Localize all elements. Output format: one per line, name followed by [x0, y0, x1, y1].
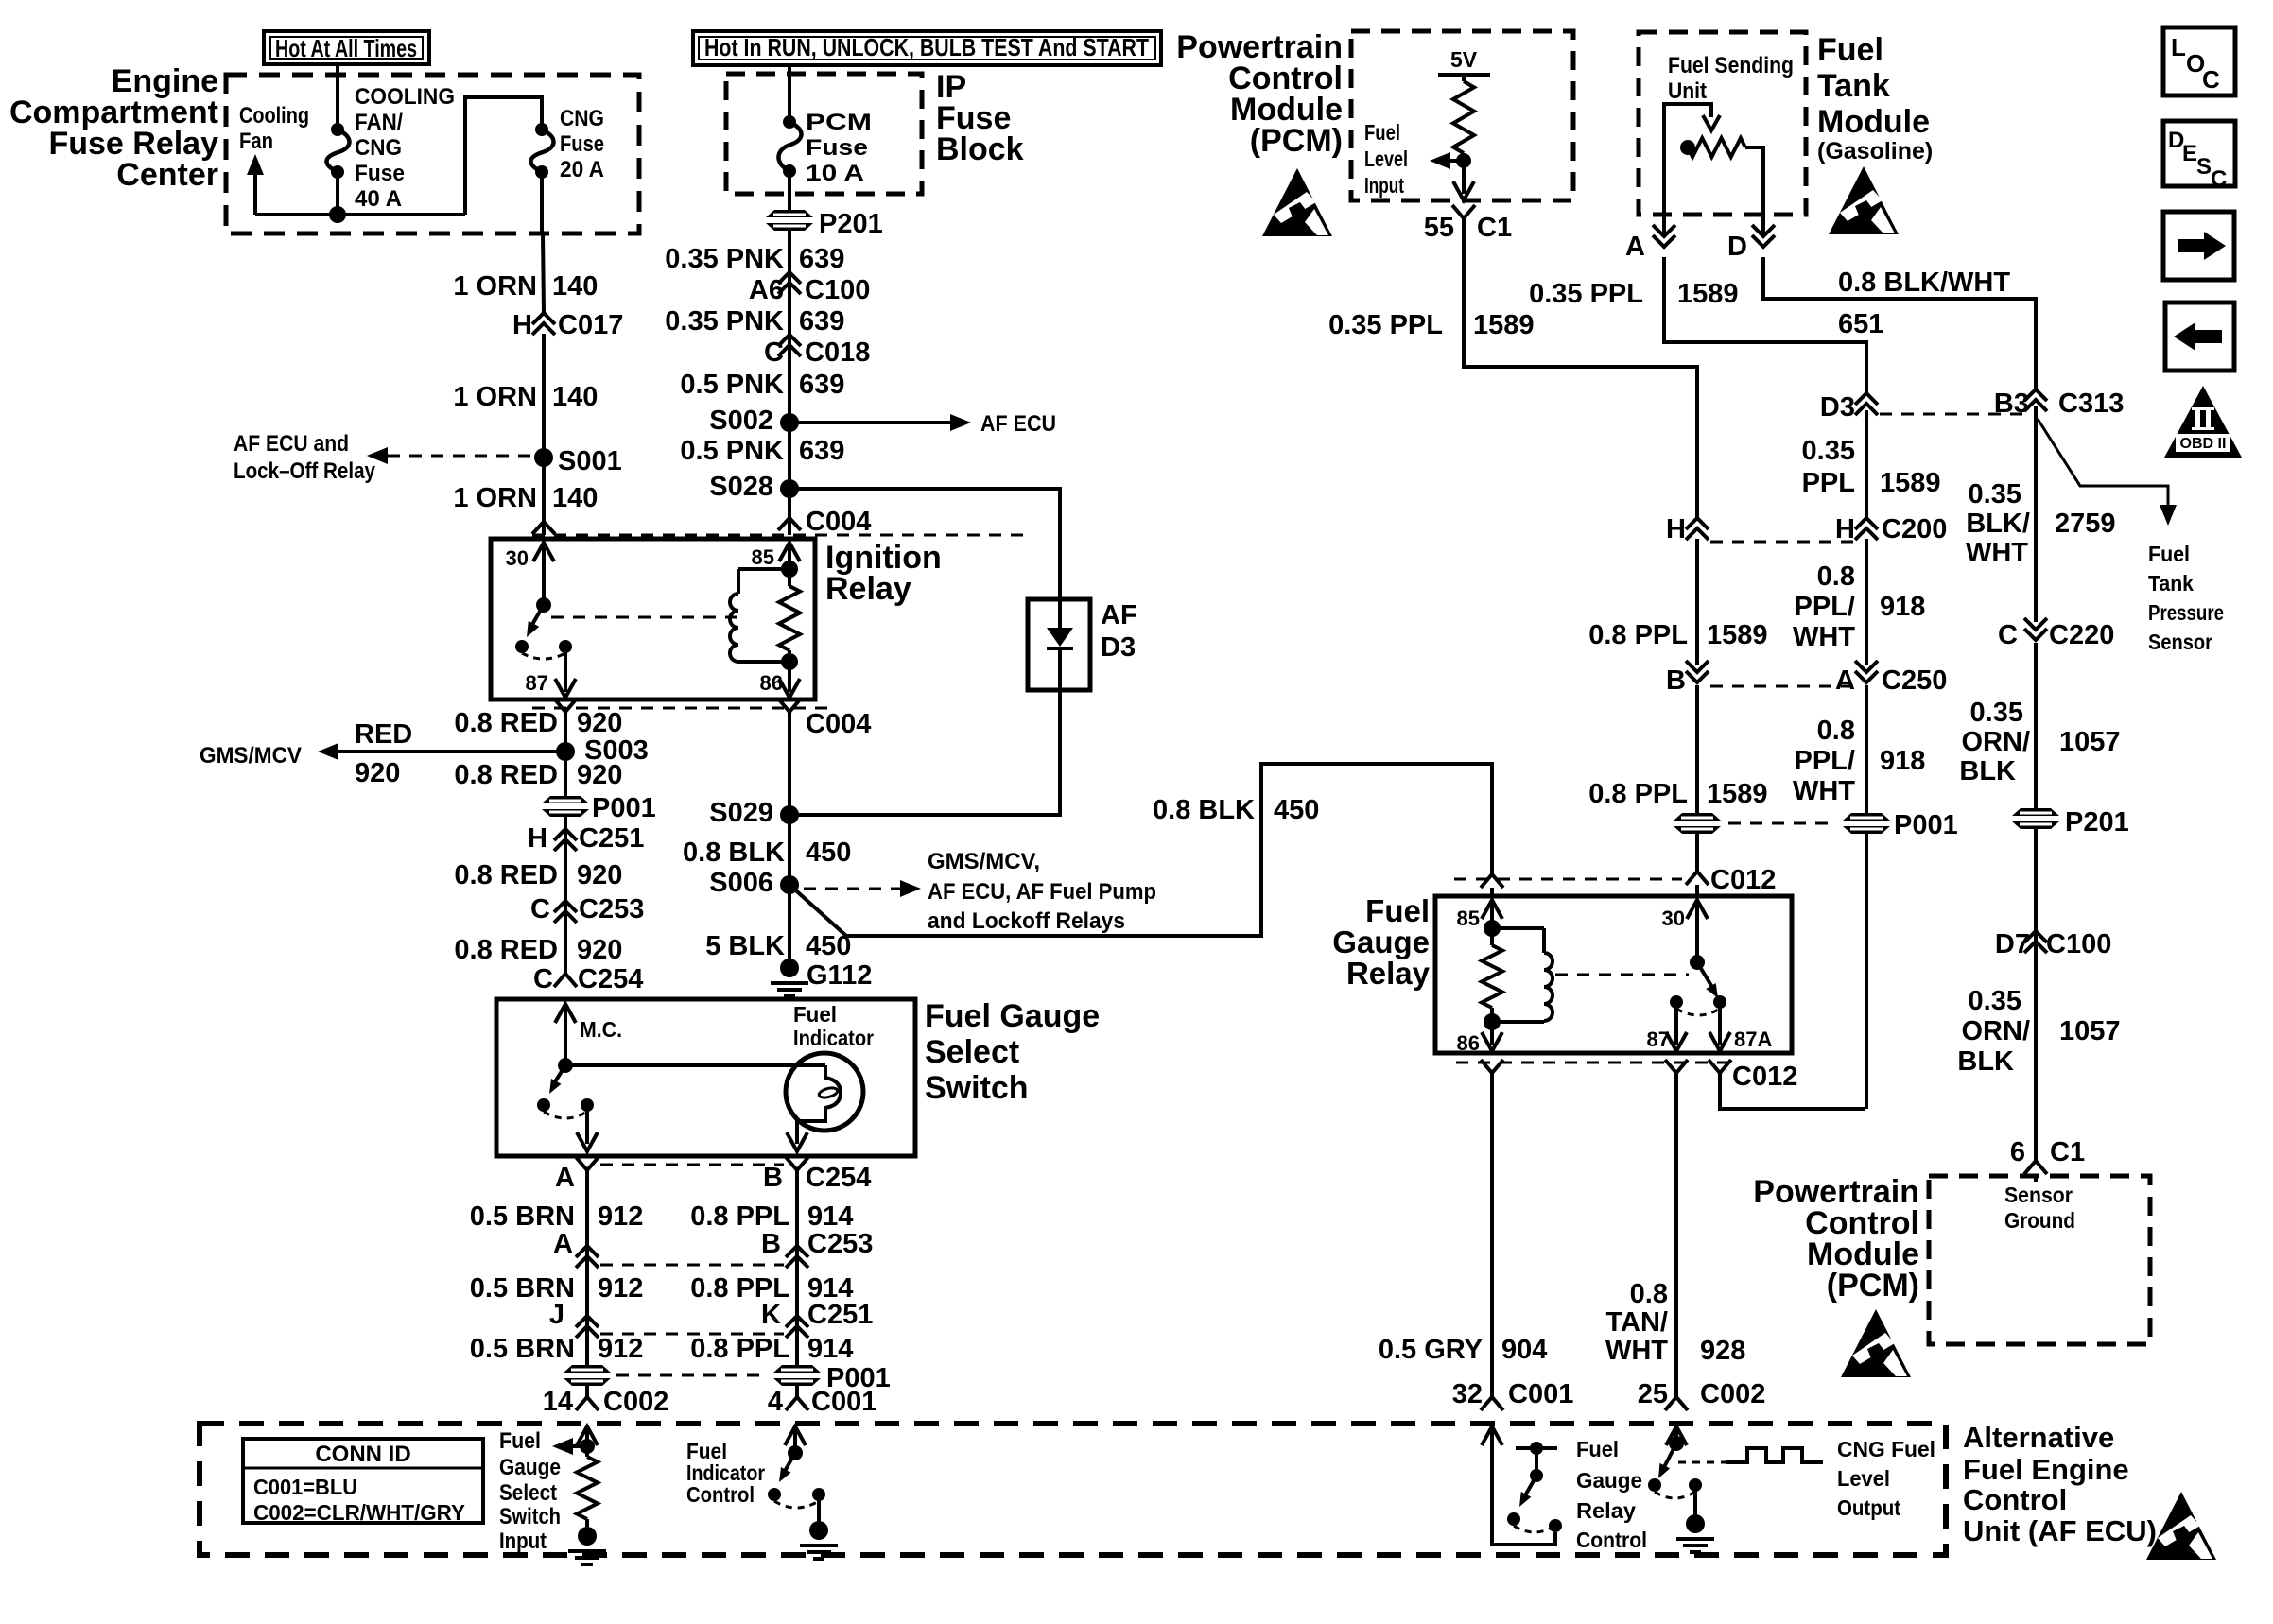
fuel gauge relay control pin arrow — [1482, 1426, 1502, 1445]
svg-text:Sensor: Sensor — [2004, 1183, 2073, 1207]
connector P201 on PNK wire — [766, 210, 813, 231]
branch: C313 to fuel tank pressure sensor — [2038, 419, 2168, 505]
ignition relay switch contacts — [515, 640, 529, 653]
svg-text:Relay: Relay — [825, 571, 911, 607]
fuel level input arrow — [1456, 153, 1471, 168]
svg-text:0.35: 0.35 — [1969, 479, 2021, 510]
svg-text:PPL/: PPL/ — [1795, 746, 1855, 776]
svg-text:1589: 1589 — [1880, 468, 1941, 498]
fork 32 C001 — [1481, 1397, 1503, 1410]
fuse: PCM Fuse 10 A — [783, 115, 796, 129]
svg-text:H: H — [512, 310, 532, 340]
connector C251 chevrons right (K) — [786, 1316, 808, 1327]
fuse: CNG Fuse 20 A — [535, 123, 548, 136]
svg-text:920: 920 — [577, 760, 622, 790]
svg-text:L: L — [2171, 33, 2186, 61]
CNG fuel level output switch — [1669, 1436, 1684, 1451]
wire: 0.35 ORN/BLK 1057 C220 to P201 — [2034, 643, 2038, 808]
wire: 0.8 PPL 914 C253 to C251 — [795, 1267, 799, 1337]
svg-text:912: 912 — [598, 1334, 643, 1364]
svg-text:30: 30 — [506, 546, 529, 570]
svg-text:C017: C017 — [558, 310, 623, 340]
connector C253 dashed line — [600, 1264, 784, 1267]
M.C. switch arm — [554, 1065, 565, 1083]
fork above fuel gauge relay 30 (C012) — [1686, 872, 1709, 885]
wire: C018 to S002 — [788, 355, 791, 423]
connector P001 on PCM-side PPL wire — [1674, 813, 1721, 834]
svg-text:P201: P201 — [2065, 807, 2129, 838]
fuel gauge relay pin 87A arrow — [1718, 1002, 1722, 1045]
splice S028 — [780, 479, 799, 498]
wire: P001 to C012 (left) — [1695, 834, 1699, 872]
connector C250 chevrons left (B) — [1686, 671, 1709, 682]
svg-text:0.8 BLK: 0.8 BLK — [683, 838, 785, 868]
junction block banner: Hot In RUN, UNLOCK, BULB TEST And START — [693, 31, 1161, 65]
svg-text:2759: 2759 — [2055, 509, 2116, 539]
M.C. switch common arrow — [555, 1004, 576, 1023]
svg-text:C: C — [2211, 166, 2227, 192]
wire: lamp to pin B — [795, 1121, 799, 1144]
svg-text:Fuse: Fuse — [806, 135, 868, 161]
svg-text:C1: C1 — [1477, 213, 1512, 243]
IP Fuse Block dashed box — [726, 74, 922, 194]
wire: P001 to 87A riser (right) — [1865, 834, 1868, 1109]
svg-text:639: 639 — [799, 370, 844, 400]
svg-text:912: 912 — [598, 1273, 643, 1304]
svg-text:AF ECU and: AF ECU and — [234, 431, 349, 457]
svg-text:C001: C001 — [811, 1387, 876, 1417]
svg-text:651: 651 — [1838, 309, 1883, 339]
Alternative Fuel Engine Control Unit dashed box — [200, 1424, 1946, 1555]
M.C. switch pivot — [558, 1058, 573, 1073]
svg-text:0.35: 0.35 — [1969, 986, 2021, 1016]
svg-text:87: 87 — [1647, 1028, 1670, 1051]
svg-text:J: J — [549, 1300, 564, 1330]
svg-text:H: H — [1835, 514, 1855, 544]
svg-text:BLK: BLK — [1957, 1046, 2014, 1077]
svg-text:0.8 RED: 0.8 RED — [454, 760, 558, 790]
svg-text:AF: AF — [1101, 600, 1137, 631]
svg-text:Fuse: Fuse — [560, 131, 604, 157]
svg-text:C1: C1 — [2050, 1137, 2085, 1167]
ignition relay mechanical link dashed — [551, 616, 737, 619]
svg-text:Fuel: Fuel — [1365, 893, 1430, 928]
wire: 0.35 PPL 1589 from 55 C1 to riser — [1464, 218, 1697, 518]
svg-text:5V: 5V — [1450, 47, 1478, 72]
wire: S028 to C004 chevron — [788, 489, 791, 535]
fork under fuel gauge relay 87A — [1709, 1060, 1731, 1073]
connector C313 chevrons B3 — [2024, 389, 2047, 401]
Engine Compartment Fuse Relay Center dashed box — [226, 75, 639, 233]
svg-text:0.5 BRN: 0.5 BRN — [470, 1334, 575, 1364]
svg-text:Level: Level — [1837, 1466, 1890, 1491]
svg-text:0.8 RED: 0.8 RED — [454, 708, 558, 738]
svg-text:Fuel: Fuel — [793, 1002, 837, 1027]
svg-text:Relay: Relay — [1346, 956, 1431, 991]
svg-text:0.8: 0.8 — [1817, 561, 1855, 592]
svg-text:85: 85 — [1457, 907, 1480, 930]
fuse: COOLING FAN/CNG Fuse 40 A — [331, 123, 344, 136]
splice S029 — [780, 805, 799, 824]
fork D under fuel sending unit — [1752, 235, 1775, 247]
svg-text:1589: 1589 — [1707, 620, 1768, 650]
wire: 0.5 BRN 912 C251 to P001 — [585, 1337, 589, 1365]
connector C004 chevron (pin for ignition relay 30) — [532, 522, 555, 534]
icon: DESC box — [2163, 121, 2235, 186]
connector C100 chevrons (D7) — [2024, 931, 2047, 942]
svg-text:639: 639 — [799, 306, 844, 337]
wire: 0.5 BRN 912 C254 to C253 — [585, 1170, 589, 1267]
wire: Hot At All Times feed down to 40A fuse — [336, 64, 339, 130]
fuel gauge relay resistor — [1490, 928, 1494, 945]
wire: 0.8 PPL 914 C251 to P001 — [795, 1337, 799, 1365]
svg-text:PCM: PCM — [806, 110, 872, 135]
connector C251 chevrons left (J) — [576, 1316, 599, 1327]
fork 55 C1 — [1452, 205, 1475, 218]
svg-text:Fuel: Fuel — [1817, 32, 1883, 68]
svg-text:0.8 PPL: 0.8 PPL — [1588, 620, 1688, 650]
svg-text:C004: C004 — [806, 507, 871, 537]
svg-text:1589: 1589 — [1677, 279, 1739, 309]
ignition relay box — [491, 539, 815, 700]
svg-text:C250: C250 — [1882, 665, 1947, 696]
wire: 0.8 BLK 450 from S006 to fuel gauge relay 85 — [789, 764, 1492, 936]
svg-text:OBD II: OBD II — [2180, 436, 2227, 452]
fuel gauge relay pin 87 arrow — [1674, 1002, 1678, 1045]
svg-text:RED: RED — [355, 719, 412, 750]
svg-text:1 ORN: 1 ORN — [453, 382, 537, 412]
connector C253 chevrons — [554, 901, 577, 912]
svg-text:20 A: 20 A — [560, 157, 604, 182]
connector P001 dashed line and label — [616, 1374, 768, 1377]
connector P001 on BRN wire — [564, 1365, 611, 1386]
svg-text:0.5 PNK: 0.5 PNK — [680, 370, 784, 400]
svg-text:C002: C002 — [1700, 1379, 1765, 1409]
arrow to Cooling Fan — [253, 170, 257, 215]
fork A under fuel sending unit — [1653, 235, 1675, 247]
svg-text:Gauge: Gauge — [1332, 924, 1430, 959]
svg-text:C200: C200 — [1882, 514, 1947, 544]
svg-text:COOLING: COOLING — [355, 84, 455, 110]
svg-text:Switch: Switch — [499, 1504, 561, 1529]
svg-text:Select: Select — [499, 1480, 557, 1506]
svg-text:C: C — [764, 337, 784, 368]
svg-text:Center: Center — [116, 157, 218, 193]
wire: 0.35 PPL 1589 D3 to C200 — [1865, 410, 1868, 518]
svg-text:0.5 GRY: 0.5 GRY — [1379, 1335, 1483, 1365]
svg-text:WHT: WHT — [1793, 622, 1855, 652]
svg-text:C012: C012 — [1710, 865, 1776, 895]
connector C254 dashed line — [600, 1164, 784, 1166]
svg-text:C001=BLU: C001=BLU — [253, 1475, 357, 1499]
connector C254 fork at switch box — [554, 974, 577, 987]
fuel gauge relay mechanical link dashed — [1555, 974, 1689, 976]
connector P201 on ORN/BLK wire — [2012, 808, 2059, 829]
icon: LOC box — [2163, 27, 2235, 95]
splice S006 — [780, 875, 799, 894]
svg-text:S006: S006 — [709, 868, 773, 898]
wire: 1 ORN 140 C017 to S001 — [542, 334, 546, 458]
svg-text:B: B — [761, 1229, 781, 1259]
fork 6 C1 — [2024, 1161, 2047, 1174]
connector P001 on sender-side PPL wire — [1843, 813, 1890, 834]
svg-text:WHT: WHT — [1605, 1336, 1668, 1366]
icon: back arrow box — [2165, 302, 2234, 371]
svg-text:C: C — [533, 964, 553, 994]
wire: RED P001 to C251 — [564, 817, 567, 857]
svg-text:Fuel: Fuel — [1364, 120, 1400, 145]
wire: S002 to S028 — [788, 423, 791, 489]
svg-text:H: H — [1666, 514, 1686, 544]
svg-text:0.8 PPL: 0.8 PPL — [690, 1201, 789, 1232]
svg-text:Relay: Relay — [1576, 1498, 1636, 1523]
fuel sending unit resistor — [1688, 138, 1745, 157]
wire: switch common to fuel indicator lamp — [565, 1063, 825, 1067]
svg-text:0.35 PPL: 0.35 PPL — [1328, 310, 1443, 340]
svg-text:(Gasoline): (Gasoline) — [1817, 138, 1933, 164]
wire: 40A fuse to bottom junction — [336, 172, 339, 215]
svg-text:C254: C254 — [578, 964, 643, 994]
wire: bus up and over to CNG fuse — [465, 97, 542, 215]
svg-text:0.35: 0.35 — [1802, 436, 1855, 466]
fuel gauge relay box — [1435, 896, 1792, 1053]
svg-text:A: A — [555, 1163, 575, 1193]
svg-text:Fuel Engine: Fuel Engine — [1963, 1453, 2129, 1486]
wire: contact to pin A — [585, 1105, 589, 1144]
svg-text:C100: C100 — [805, 275, 870, 305]
splice S003 — [556, 742, 575, 761]
fuel indicator lamp — [786, 1053, 863, 1131]
ignition relay pin 86 arrow — [788, 662, 791, 692]
svg-text:C: C — [2202, 65, 2220, 94]
svg-text:Input: Input — [499, 1529, 547, 1554]
svg-text:C002: C002 — [603, 1387, 668, 1417]
svg-text:C100: C100 — [2046, 929, 2111, 959]
svg-text:C253: C253 — [579, 894, 644, 924]
svg-text:C220: C220 — [2049, 620, 2114, 650]
fuel sending unit wire to D — [1745, 147, 1763, 215]
svg-text:Gauge: Gauge — [1576, 1468, 1642, 1493]
ignition relay resistor — [788, 569, 791, 586]
svg-text:B: B — [1666, 665, 1686, 696]
C004 fork at relay pin 86 — [778, 699, 801, 712]
wire: fuel level to 55 C1 — [1462, 161, 1466, 194]
wire: 5 BLK 450 S006 to G112 — [788, 885, 791, 959]
fuel sending unit sender circuit — [1664, 104, 1711, 215]
fuel gauge select switch input pin arrow — [577, 1426, 598, 1445]
svg-text:639: 639 — [799, 244, 844, 274]
svg-text:Control: Control — [1963, 1483, 2067, 1516]
svg-text:1 ORN: 1 ORN — [453, 271, 537, 302]
svg-text:Module: Module — [1817, 104, 1930, 140]
connector C017 chevrons — [532, 313, 555, 324]
svg-text:87A: 87A — [1734, 1028, 1772, 1051]
connector C250 chevrons right (A) — [1855, 671, 1878, 682]
fork under fuel gauge relay 87 — [1665, 1060, 1688, 1073]
ground G112 — [780, 959, 799, 977]
fork above fuel gauge relay 85 — [1481, 874, 1503, 888]
svg-text:Fuse: Fuse — [355, 161, 405, 186]
fuel gauge relay control wire loop — [1492, 1426, 1555, 1545]
wire: 0.8 PPL/WHT 918 C250 to P001 (right) — [1865, 685, 1868, 813]
svg-text:1589: 1589 — [1707, 779, 1768, 809]
connector C200 chevrons left — [1686, 518, 1709, 529]
wire: 0.8 BLK/WHT 651 from D to B3 C313 — [1761, 215, 1765, 236]
svg-text:Hot In RUN, UNLOCK, BULB TEST: Hot In RUN, UNLOCK, BULB TEST And START — [704, 33, 1149, 61]
svg-text:Unit: Unit — [1668, 78, 1707, 104]
svg-text:ORN/: ORN/ — [1962, 1016, 2031, 1046]
5V supply bar — [1438, 73, 1490, 77]
svg-text:D: D — [1727, 232, 1747, 262]
connector C220 chevrons — [2024, 629, 2047, 640]
wire: 0.8 RED 920 S003 to P001 — [564, 752, 567, 796]
wire to 14 C002 fork — [585, 1386, 589, 1397]
ESD symbol at PCM bottom — [1841, 1309, 1911, 1377]
PCM pull-up resistor — [1462, 75, 1466, 81]
connector P001 on PPL wire — [773, 1365, 821, 1386]
svg-text:918: 918 — [1880, 592, 1925, 622]
wire: P201 to C100 — [788, 231, 791, 301]
svg-text:ORN/: ORN/ — [1962, 727, 2031, 757]
svg-text:Hot At All Times: Hot At All Times — [275, 34, 417, 62]
svg-text:0.8: 0.8 — [1630, 1279, 1668, 1309]
svg-text:4: 4 — [768, 1387, 783, 1417]
svg-text:Block: Block — [936, 131, 1024, 167]
svg-text:C254: C254 — [806, 1163, 871, 1193]
svg-text:0.8 BLK/WHT: 0.8 BLK/WHT — [1838, 268, 2010, 298]
svg-text:920: 920 — [355, 758, 400, 788]
svg-text:450: 450 — [1274, 795, 1319, 825]
svg-text:914: 914 — [807, 1201, 853, 1232]
wire: C100 to C018 — [788, 293, 791, 363]
svg-text:AF ECU: AF ECU — [980, 411, 1056, 437]
svg-text:FAN/: FAN/ — [355, 110, 403, 135]
svg-text:912: 912 — [598, 1201, 643, 1232]
fuel gauge relay pin 86 arrow — [1490, 1022, 1494, 1045]
svg-text:Alternative: Alternative — [1963, 1421, 2114, 1454]
svg-text:6: 6 — [2010, 1137, 2025, 1167]
wire: 0.8 PPL 1589 C250 to P001 (left) — [1695, 685, 1699, 813]
ESD symbol at PCM top — [1262, 168, 1332, 236]
PCM sensor ground dashed box — [1929, 1176, 2150, 1344]
svg-text:C253: C253 — [807, 1229, 873, 1259]
svg-text:86: 86 — [760, 671, 783, 695]
svg-text:30: 30 — [1662, 907, 1685, 930]
M.C. switch contacts — [537, 1098, 550, 1112]
connector C253 chevrons right — [786, 1246, 808, 1257]
connector C018 chevrons — [778, 335, 801, 346]
svg-text:0.8 BLK: 0.8 BLK — [1153, 795, 1255, 825]
svg-text:Indicator: Indicator — [793, 1026, 874, 1050]
wire: S028 right and down to AF D3 diode — [789, 489, 1060, 599]
wire: 0.5 GRY 904 — [1490, 1073, 1494, 1397]
fuel gauge relay contacts — [1670, 995, 1683, 1009]
wire: 0.8 RED 920 C253 to C254 — [564, 922, 567, 974]
wire: 0.8 RED 920 relay87 to S003 — [564, 712, 567, 752]
svg-text:S001: S001 — [558, 446, 622, 476]
wire: C012 fork into relay 30 — [1695, 885, 1699, 896]
svg-text:Sensor: Sensor — [2148, 630, 2212, 654]
svg-text:M.C.: M.C. — [580, 1017, 622, 1042]
svg-text:0.8 RED: 0.8 RED — [454, 860, 558, 890]
wire: 1 ORN 140 from CNG fuse to C017 — [540, 172, 544, 233]
svg-text:1 ORN: 1 ORN — [453, 483, 537, 513]
wire: 0.8 PPL 914 C254 to C253 — [795, 1170, 799, 1267]
svg-text:0.8 PPL: 0.8 PPL — [1588, 779, 1688, 809]
CNG square wave symbol — [1678, 1461, 1726, 1464]
connector C004 lower dashed line — [532, 707, 832, 710]
fuel gauge select switch box — [496, 999, 915, 1156]
wire: 0.8 TAN/WHT 928 — [1674, 1073, 1678, 1397]
svg-text:C004: C004 — [806, 709, 871, 739]
wire: 0.35 BLK/WHT 2759 B3 to C220 — [2034, 406, 2038, 622]
svg-text:D3: D3 — [1101, 632, 1136, 663]
svg-text:(PCM): (PCM) — [1827, 1268, 1919, 1304]
resistor: fuel gauge select switch input — [577, 1457, 598, 1519]
CNG fuel level output pin arrow — [1666, 1426, 1687, 1445]
svg-text:0.5 PNK: 0.5 PNK — [680, 436, 784, 466]
svg-text:86: 86 — [1457, 1031, 1480, 1055]
svg-text:PPL/: PPL/ — [1795, 592, 1855, 622]
svg-text:Fuel: Fuel — [2148, 542, 2190, 566]
svg-text:55: 55 — [1424, 213, 1454, 243]
svg-text:P001: P001 — [592, 793, 656, 823]
ESD symbol at AF ECU — [2146, 1492, 2216, 1560]
svg-text:Input: Input — [1364, 173, 1404, 198]
fuel gauge select switch input branch arrow — [580, 1439, 595, 1454]
svg-text:920: 920 — [577, 860, 622, 890]
ground inside AF ECU (CNG output) — [1693, 1485, 1697, 1517]
wire: 0.35 PPL 1589 from A to D3 C313 — [1662, 215, 1666, 236]
svg-text:CNG: CNG — [355, 135, 402, 161]
svg-text:Select: Select — [925, 1034, 1019, 1070]
svg-text:Level: Level — [1364, 147, 1408, 171]
dashed branch: S006 to GMS/MCV AF ECU AF Fuel Pump and Lockoff Relays — [804, 888, 900, 890]
fuel sending unit dashed box — [1639, 32, 1806, 215]
svg-text:E: E — [2182, 141, 2197, 166]
splice S001 — [534, 448, 553, 467]
fuel gauge relay switch arm — [1690, 955, 1705, 970]
svg-text:B: B — [763, 1163, 783, 1193]
svg-text:Tank: Tank — [1817, 68, 1890, 104]
svg-text:S002: S002 — [709, 406, 773, 436]
svg-text:H: H — [528, 823, 547, 854]
diode AF D3 symbol — [1058, 599, 1062, 628]
ground inside AF ECU (fuel indicator control) — [817, 1494, 821, 1524]
connector C012 upper dashed line — [1454, 878, 1682, 881]
connector C004 upper dashed line — [532, 534, 1026, 537]
fork 25 C002 — [1665, 1397, 1688, 1410]
connector P001 on RED wire — [542, 796, 589, 817]
connector C251 dashed line — [600, 1333, 784, 1336]
svg-text:(PCM): (PCM) — [1250, 123, 1343, 159]
wire: 0.8 BLK 450 S029 to S006 — [788, 815, 791, 885]
ignition relay coil — [738, 567, 789, 571]
svg-text:Cooling: Cooling — [239, 103, 309, 129]
svg-text:Switch: Switch — [925, 1070, 1029, 1106]
svg-text:C: C — [1998, 620, 2018, 650]
svg-text:Fuel: Fuel — [1576, 1437, 1619, 1461]
svg-text:K: K — [761, 1300, 781, 1330]
wire: AF D3 down and left to S029 — [789, 690, 1060, 815]
svg-text:140: 140 — [552, 382, 598, 412]
svg-text:140: 140 — [552, 483, 598, 513]
svg-text:C: C — [530, 894, 550, 924]
ignition relay switch arm — [536, 597, 551, 613]
wire to 4 C001 fork — [795, 1386, 799, 1397]
dashed branch from S001 to AF ECU and Lock-Off Relay — [388, 455, 535, 458]
svg-text:0.35 PNK: 0.35 PNK — [665, 244, 784, 274]
